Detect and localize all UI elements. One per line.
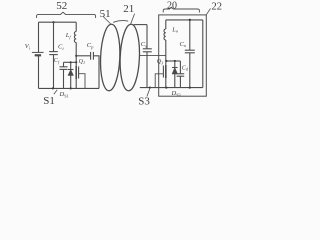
svg-text:52: 52	[56, 0, 67, 12]
transistor Q1	[75, 66, 77, 79]
wire drain node right	[166, 60, 181, 62]
node C_p tap	[75, 55, 77, 57]
wire L_o bottom	[165, 40, 167, 61]
wire C_p right with corner down	[93, 56, 99, 89]
node C_o top	[189, 19, 191, 21]
transistor Q3	[165, 61, 167, 65]
coil ellipse 1	[99, 24, 121, 91]
svg-text:Cd: Cd	[182, 65, 189, 71]
diode D_S3	[174, 61, 176, 68]
capacitor C_p	[90, 52, 92, 60]
node drain wire	[70, 61, 72, 63]
capacitor C_d	[179, 61, 181, 74]
wire drain vertical	[75, 43, 77, 67]
wire bottom rail left	[39, 87, 100, 89]
wire C_s upper vertical	[146, 25, 148, 49]
wire L_o top	[165, 20, 167, 29]
wire top rail left	[39, 21, 77, 23]
wire battery branch lower	[38, 55, 40, 88]
brace 52	[37, 12, 96, 18]
diode D_S1	[70, 62, 72, 69]
wire battery branch upper	[38, 22, 40, 52]
pointer 21	[131, 14, 135, 24]
capacitor C_o	[189, 20, 191, 50]
wire C_i branch upper	[53, 22, 55, 51]
capacitor C_s	[143, 48, 152, 50]
wire C_i branch lower	[53, 55, 55, 89]
brace 20	[163, 7, 199, 12]
pointer 51	[103, 17, 111, 25]
node rail diode	[70, 87, 72, 89]
svg-text:S3: S3	[138, 95, 150, 105]
node top C_i	[52, 21, 54, 23]
svg-text:Q3: Q3	[157, 59, 163, 65]
wire L_f top	[75, 22, 77, 31]
receiver outer box	[159, 15, 207, 96]
pointer 22	[206, 9, 211, 16]
wire C_s top	[134, 24, 147, 26]
svg-text:20: 20	[167, 0, 177, 11]
coupling arc	[113, 21, 128, 23]
wire inner top rail	[166, 19, 203, 21]
svg-text:Cf: Cf	[54, 58, 60, 64]
svg-text:22: 22	[212, 1, 223, 12]
inductor L_o	[164, 29, 166, 40]
wire drain node horizontal	[64, 61, 77, 63]
svg-text:S1: S1	[43, 95, 55, 105]
svg-text:21: 21	[123, 3, 134, 15]
svg-text:Q1: Q1	[79, 59, 85, 65]
capacitor C_i	[49, 51, 58, 53]
wire bottom rail right	[140, 87, 203, 89]
battery V_i	[32, 51, 44, 53]
wire C_s lower vertical	[146, 52, 148, 88]
node rail C_i	[52, 87, 54, 89]
inductor L_f	[74, 32, 76, 43]
wire secondary tap	[140, 55, 166, 57]
capacitor C_f	[63, 62, 65, 67]
wire C_p left	[76, 55, 90, 57]
coil ellipse 2	[119, 24, 141, 91]
wire inner right branch	[202, 20, 204, 88]
